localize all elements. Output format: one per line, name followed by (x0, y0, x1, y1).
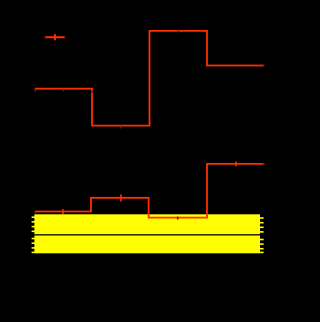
band edge ticks left (32, 216, 35, 253)
isolated errorbar end caps (45, 36, 64, 38)
lower curve dark point markers (35, 163, 263, 220)
lower step curve (35, 164, 265, 218)
upper step curve (35, 31, 265, 126)
upper curve dark point markers (35, 29, 263, 128)
lower curve bright error ticks (63, 162, 236, 215)
filled band upper (yellow region) (34, 214, 260, 234)
isolated errorbar point (45, 34, 65, 40)
filled band lower (yellow region) (34, 236, 260, 254)
band edge ticks right (260, 217, 264, 253)
